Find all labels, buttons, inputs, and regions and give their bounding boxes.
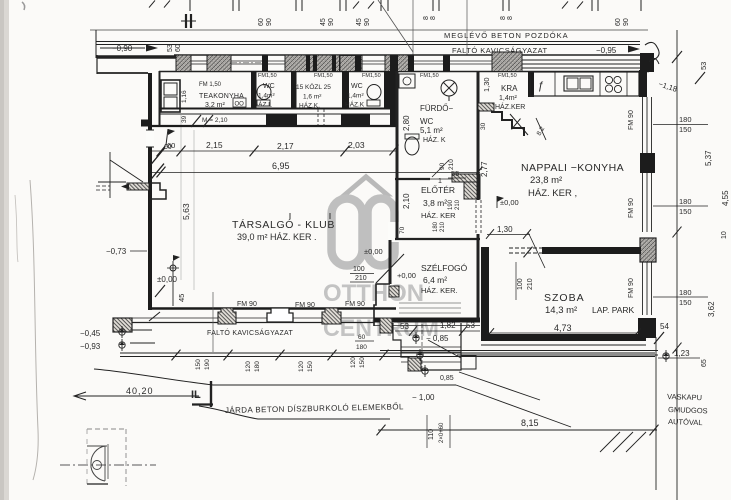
svg-text:45: 45	[320, 18, 327, 26]
steps hatch block	[380, 318, 392, 333]
svg-text:1,30: 1,30	[482, 77, 491, 92]
hatched wall stub left	[127, 183, 149, 190]
svg-text:65: 65	[701, 359, 708, 367]
solid pier 4	[340, 56, 362, 72]
kitchen window lines	[522, 59, 641, 61]
svg-text:1,16: 1,16	[181, 90, 188, 103]
dashed ext lines	[96, 185, 110, 187]
window frame upper	[642, 97, 644, 153]
pier 2 stepped white	[267, 308, 293, 322]
svg-text:0,85: 0,85	[440, 375, 454, 382]
svg-text:5,1 m²: 5,1 m²	[420, 126, 443, 135]
svg-text:6,4 m²: 6,4 m²	[423, 275, 447, 285]
property line vertical	[676, 30, 678, 500]
svg-text:210: 210	[355, 275, 367, 282]
szoba south wall	[481, 334, 646, 341]
svg-text:8: 8	[500, 16, 507, 20]
flag symbol 60 door	[166, 129, 168, 145]
svg-text:1,82: 1,82	[440, 321, 456, 330]
svg-text:FM 90: FM 90	[628, 278, 635, 298]
svg-text:150: 150	[307, 361, 314, 372]
svg-text:FM 90: FM 90	[295, 302, 315, 309]
cupboard column teakonyha	[161, 80, 180, 112]
szoba wall door dashes	[509, 247, 542, 249]
szelfogo south wall	[374, 318, 480, 323]
svg-text:90: 90	[364, 18, 371, 26]
svg-text:KRA: KRA	[501, 84, 518, 93]
svg-text:39: 39	[181, 115, 188, 123]
svg-text:1,30: 1,30	[497, 225, 513, 234]
wall kozl/wc2	[342, 71, 349, 109]
projection line x413	[412, 0, 414, 71]
annex top wall	[97, 55, 178, 59]
svg-text:5,63: 5,63	[181, 203, 191, 220]
svg-text:60: 60	[258, 18, 265, 26]
svg-text:FM1,50: FM1,50	[498, 73, 517, 79]
scan shadow left edge	[0, 0, 9, 500]
hatched block over FURDO	[385, 55, 413, 72]
svg-text:FM 90: FM 90	[628, 110, 635, 130]
svg-text:LAP. PARK: LAP. PARK	[592, 305, 635, 315]
scan smudge top-left	[22, 2, 25, 10]
szoba outer line	[481, 344, 646, 346]
south wall left wing top edge	[149, 307, 396, 309]
svg-text:3,2 m²: 3,2 m²	[205, 102, 226, 109]
kra room walls stepped	[480, 105, 524, 136]
svg-text:180: 180	[254, 361, 261, 372]
toilet	[405, 137, 419, 155]
svg-text:WC: WC	[263, 83, 275, 90]
toilet wc2	[367, 85, 381, 100]
svg-text:8: 8	[430, 16, 437, 20]
svg-text:100: 100	[353, 266, 365, 273]
svg-text:70: 70	[399, 226, 406, 234]
svg-text:180: 180	[356, 344, 367, 351]
kra diagonal door swing	[510, 114, 528, 135]
dim line 60/2,15/2,17/2,03	[152, 150, 396, 152]
top edge tick marks	[189, 0, 191, 11]
svg-text:FM 90: FM 90	[345, 301, 365, 308]
window gap 6	[450, 60, 492, 62]
svg-text:WC: WC	[420, 117, 434, 126]
door arc	[87, 445, 107, 447]
tarsalgo north wall	[148, 125, 396, 127]
svg-text:53: 53	[400, 322, 409, 331]
wall jog chimney left	[149, 183, 166, 199]
svg-text:1,23: 1,23	[674, 349, 690, 358]
shaft dividers	[306, 56, 310, 72]
svg-text:2,17: 2,17	[277, 141, 294, 151]
svg-text:54: 54	[660, 322, 669, 331]
svg-text:53: 53	[699, 62, 708, 70]
row2 dark seg 1	[266, 114, 297, 127]
svg-text:−0,90: −0,90	[112, 44, 133, 53]
svg-text:190: 190	[448, 199, 454, 210]
svg-text:180: 180	[433, 221, 439, 232]
svg-text:GMUDGOS: GMUDGOS	[668, 405, 708, 415]
svg-text:HÁZ. KER: HÁZ. KER	[421, 211, 456, 220]
svg-text:HÁZ.K: HÁZ.K	[345, 100, 365, 109]
svg-text:HÁZ. K: HÁZ. K	[423, 135, 446, 144]
svg-text:-ÁZ.L: -ÁZ.L	[256, 100, 272, 109]
ne wall solid top	[639, 70, 647, 97]
svg-text:14,3 m²: 14,3 m²	[545, 305, 577, 316]
step lines	[401, 346, 461, 348]
dim arrow 40,20	[74, 395, 199, 397]
pier 3 hatched	[322, 308, 341, 324]
svg-text:53: 53	[466, 321, 475, 330]
watermark logo letter C	[368, 199, 395, 266]
west wall door opening	[146, 130, 154, 147]
annex left end vertical	[96, 55, 98, 74]
se corner pier	[638, 318, 656, 338]
svg-text:1: 1	[438, 178, 442, 185]
svg-text:+0,00: +0,00	[397, 271, 416, 280]
dashed box	[87, 428, 126, 430]
svg-text:39,0 m² HÁZ. KER .: 39,0 m² HÁZ. KER .	[237, 232, 317, 242]
wall teakonyha/wc	[251, 71, 257, 109]
row2 line upper	[159, 113, 396, 115]
paper crease curve left	[30, 180, 38, 480]
kra east wall	[528, 72, 534, 97]
section marker III top	[185, 14, 187, 28]
svg-text:210: 210	[455, 199, 461, 210]
svg-text:NAPPALI −KONYHA: NAPPALI −KONYHA	[521, 162, 624, 174]
svg-text:1,4m²: 1,4m²	[258, 93, 275, 100]
sidewalk curve upper	[94, 369, 213, 385]
burners	[605, 76, 612, 83]
squiggle top right corner	[645, 42, 659, 61]
svg-text:−0,93: −0,93	[80, 342, 101, 351]
sw corner slash	[149, 312, 160, 321]
svg-text:60: 60	[175, 44, 182, 52]
svg-text:180: 180	[679, 197, 692, 206]
svg-text:FM 1,50: FM 1,50	[199, 82, 222, 88]
svg-text:FÜRDŐ−: FÜRDŐ−	[420, 104, 453, 113]
svg-text:90: 90	[623, 18, 630, 26]
terrace slash ticks	[172, 350, 181, 361]
wall seg dark left	[148, 109, 161, 127]
svg-text:150: 150	[679, 207, 692, 216]
svg-text:ELŐTÉR: ELŐTÉR	[421, 185, 455, 195]
svg-text:8,15: 8,15	[521, 418, 539, 428]
row2 door swing ticks	[151, 148, 165, 165]
rooms row bottom wall	[159, 108, 398, 110]
hatched pier over KRA	[492, 52, 522, 72]
window gap lines 4	[362, 60, 385, 62]
svg-text:100: 100	[517, 278, 524, 290]
svg-text:2,03: 2,03	[348, 140, 365, 150]
svg-text:120: 120	[245, 361, 252, 372]
svg-text:180: 180	[679, 288, 692, 297]
double line row	[96, 41, 640, 43]
svg-text:90: 90	[266, 18, 273, 26]
entry door swing	[428, 340, 461, 358]
svg-text:FM1,50: FM1,50	[314, 73, 333, 79]
small circle	[93, 461, 102, 470]
drafting triangle symbol	[109, 152, 111, 198]
svg-text:150: 150	[195, 359, 202, 370]
svg-text:OO: OO	[235, 102, 245, 108]
svg-text:60: 60	[358, 334, 366, 341]
svg-text:3,62: 3,62	[707, 301, 716, 317]
band lower line2	[120, 317, 396, 319]
kozl door dashes	[317, 109, 319, 127]
svg-text:2,10: 2,10	[402, 193, 411, 209]
pier hatched lower	[640, 238, 656, 262]
watermark logo roof	[339, 174, 393, 197]
svg-text:190: 190	[204, 359, 211, 370]
svg-text:SZOBA: SZOBA	[544, 292, 585, 304]
projection line x467	[466, 0, 468, 55]
north wall left jog	[141, 120, 151, 127]
level mark 0,00 tarsalgo	[172, 261, 174, 306]
svg-text:30: 30	[480, 122, 487, 130]
hatched block szelfogo nw	[389, 286, 399, 297]
svg-text:6,95: 6,95	[272, 161, 290, 171]
svg-text:2,80: 2,80	[402, 115, 411, 131]
left vertical edge of top strip	[95, 30, 97, 58]
svg-text:45: 45	[356, 18, 363, 26]
svg-text:−0,73: −0,73	[106, 247, 127, 256]
svg-text:60: 60	[615, 18, 622, 26]
svg-text:3,8 m²: 3,8 m²	[423, 198, 447, 208]
projection vline x213	[212, 292, 214, 352]
svg-text:150: 150	[679, 298, 692, 307]
svg-text:− 1,00: − 1,00	[412, 393, 435, 402]
dim row ticks	[157, 146, 166, 157]
wall wc2/furdo	[384, 71, 390, 109]
svg-text:TEAKONYHA: TEAKONYHA	[199, 93, 244, 100]
toilet wc1	[257, 85, 271, 100]
svg-text:210: 210	[527, 278, 534, 290]
pier 1 hatched	[218, 308, 236, 324]
diag tick door szoba	[524, 247, 533, 258]
kitchen counter outline	[530, 72, 639, 96]
sink divider	[599, 72, 601, 96]
kra west wall = furdo east wall	[477, 71, 480, 110]
svg-text:VASKAPU: VASKAPU	[667, 392, 702, 402]
top edge slash ticks	[149, 0, 155, 7]
svg-text:SZÉLFOGÓ: SZÉLFOGÓ	[421, 263, 468, 273]
dash-dot axis line	[60, 464, 156, 466]
svg-text:FM1,50: FM1,50	[420, 73, 439, 79]
svg-text:FM 90: FM 90	[237, 301, 257, 308]
hatched pier 2	[207, 55, 231, 72]
north wall top edge	[174, 54, 649, 56]
svg-text:150: 150	[679, 125, 692, 134]
svg-text:1,6 m²: 1,6 m²	[303, 94, 322, 101]
svg-text:2,77: 2,77	[480, 161, 489, 177]
window gap lines 1	[191, 60, 207, 62]
szelfogo west wall	[389, 240, 392, 284]
eloter south wall	[395, 238, 480, 240]
se outer line	[380, 350, 658, 352]
projection diagonal	[378, 0, 413, 52]
svg-text:IL: IL	[191, 389, 201, 401]
porch hatch block	[408, 358, 421, 371]
svg-text:150: 150	[359, 357, 366, 368]
dim line 6,95	[152, 172, 480, 174]
window frame mid	[642, 173, 644, 232]
terrace double line	[120, 352, 655, 354]
teakonyha west inner wall	[159, 71, 161, 127]
vline right of building	[655, 337, 657, 490]
svg-text:FALTÓ KAVICSÁGYAZAT: FALTÓ KAVICSÁGYAZAT	[207, 328, 294, 337]
svg-text:55: 55	[451, 169, 459, 178]
wall wc/kozl	[291, 71, 297, 109]
nappali west wall opening dashes	[475, 200, 477, 234]
svg-text:WC: WC	[351, 83, 363, 90]
window gap lines 3	[268, 60, 285, 62]
svg-text:TÁRSALGÓ - KLUB: TÁRSALGÓ - KLUB	[232, 218, 335, 231]
interior projection lines	[180, 115, 182, 280]
diag pen strokes near kra	[536, 118, 546, 140]
solid pier 3	[262, 56, 268, 72]
svg-text:− 0,85: − 0,85	[426, 334, 449, 343]
furdo west wall	[396, 71, 399, 180]
watermark logo letter O	[332, 199, 363, 266]
window gap lines 2	[231, 60, 262, 62]
svg-text:8: 8	[507, 16, 514, 20]
level mark nappali	[496, 196, 498, 208]
szoba west wall	[481, 247, 489, 341]
svg-text:4,55: 4,55	[721, 190, 730, 206]
diag door line szelfogo	[376, 254, 404, 283]
top horizontal guide line	[90, 29, 648, 31]
svg-text:±0,00: ±0,00	[157, 275, 178, 284]
svg-text:5,37: 5,37	[704, 150, 713, 166]
svg-text:180: 180	[679, 115, 692, 124]
diag line to 8,15	[456, 385, 571, 427]
sw hatched pier far left	[113, 318, 132, 332]
svg-text:±0,00: ±0,00	[500, 198, 519, 207]
south wall band bottom edge	[120, 322, 374, 324]
svg-text:FM1,50: FM1,50	[258, 73, 277, 79]
svg-text:HÁZ. KER ,: HÁZ. KER ,	[528, 188, 577, 199]
szelfogo step out	[374, 284, 390, 326]
svg-text:1,4m²: 1,4m²	[499, 95, 518, 102]
svg-text:10: 10	[721, 231, 728, 239]
svg-text:53: 53	[167, 44, 174, 52]
row2 dark seg 2	[341, 114, 370, 127]
north wall bottom edge	[159, 71, 649, 73]
svg-text:AUTÓVAL: AUTÓVAL	[668, 417, 703, 427]
svg-text:FM 90: FM 90	[628, 198, 635, 218]
svg-text:120: 120	[350, 357, 357, 368]
svg-text:90: 90	[328, 18, 335, 26]
washbasin	[399, 74, 415, 88]
svg-text:M = 2,10: M = 2,10	[202, 117, 228, 124]
svg-text:45: 45	[177, 294, 186, 302]
hatched shaft block WC	[285, 55, 340, 72]
nappali west wall lower	[477, 234, 480, 320]
svg-text:HÁZ.K.: HÁZ.K.	[299, 101, 320, 110]
tick marks above label	[289, 213, 291, 219]
window gap lines 5	[414, 60, 449, 62]
svg-text:FM1,50: FM1,50	[362, 73, 381, 79]
svg-text:120: 120	[298, 361, 305, 372]
band left close lines	[130, 329, 152, 331]
svg-text:HÁZ.KER: HÁZ.KER	[495, 102, 525, 111]
dim line 8,15	[378, 429, 657, 431]
szelfogo interior steps	[399, 302, 461, 304]
svg-text:±0,00: ±0,00	[364, 247, 383, 256]
eloter west wall	[396, 180, 399, 240]
nappali/szoba wall	[542, 247, 641, 254]
annex lower wall	[97, 72, 148, 74]
svg-text:1,4m²: 1,4m²	[347, 93, 364, 100]
svg-text:4,73: 4,73	[554, 323, 572, 333]
pier mid	[640, 153, 655, 173]
svg-text:HÁZ. KER.: HÁZ. KER.	[421, 286, 458, 295]
dark pier 5	[443, 56, 450, 72]
svg-text:−0,95: −0,95	[596, 46, 617, 55]
lower diag hatches right	[600, 432, 620, 452]
svg-text:MEGLÉVŐ BETON POZDÓKA: MEGLÉVŐ BETON POZDÓKA	[444, 31, 569, 40]
stove	[564, 76, 593, 91]
nappali west wall	[477, 110, 480, 200]
fan symbol	[441, 80, 457, 96]
sidewalk curve lower	[199, 406, 390, 419]
svg-text:60: 60	[164, 144, 172, 151]
entry steps outline	[393, 323, 461, 370]
svg-text:8: 8	[423, 16, 430, 20]
west outer wall	[148, 73, 152, 310]
porch door centerline	[421, 324, 423, 371]
svg-text:2,15: 2,15	[206, 140, 223, 150]
furdo south wall	[395, 178, 430, 180]
svg-text:−0,45: −0,45	[80, 329, 101, 338]
svg-text:15 KÖZL 25: 15 KÖZL 25	[296, 83, 331, 91]
svg-text:ƒ: ƒ	[538, 80, 544, 92]
svg-text:23,8 m²: 23,8 m²	[530, 175, 562, 186]
svg-text:2×0+60: 2×0+60	[439, 422, 445, 443]
window frame szoba	[642, 262, 644, 315]
svg-text:40,20: 40,20	[126, 386, 154, 396]
svg-text:210: 210	[440, 221, 446, 232]
ne corner pier	[640, 53, 654, 72]
hatched pier nw corner	[176, 55, 191, 72]
